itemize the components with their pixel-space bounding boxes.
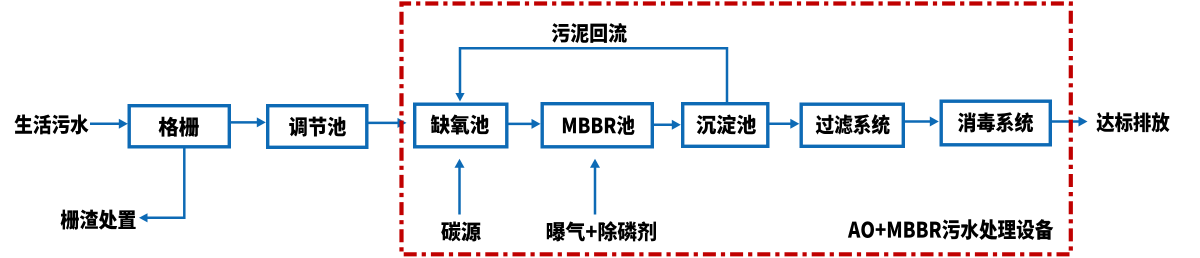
- label 缺氧池: [431, 115, 489, 135]
- label 曝气+除磷剂 (aeration + phosphorus remover): [547, 221, 656, 241]
- label 栅渣处置 (screenings disposal): [61, 210, 136, 230]
- screenings disposal branch line from 格栅 down-left to 栅渣处置: [139, 149, 184, 223]
- process box 消毒系统 (disinfection system): [941, 101, 1050, 145]
- arrow 缺氧池 to MBBR池: [509, 119, 541, 129]
- label 过滤系统: [816, 114, 890, 134]
- process box 格栅 (bar screen): [129, 106, 229, 147]
- red dash-dot boundary of AO+MBBR equipment package: [402, 4, 1071, 255]
- label 生活污水 (influent domestic sewage): [14, 114, 88, 134]
- process box 沉淀池 (sedimentation tank): [683, 104, 768, 147]
- carbon source dosing arrow into 缺氧池: [455, 159, 465, 215]
- arrow 生活污水 to 格栅: [90, 119, 128, 129]
- sludge return line (污泥回流) from 沉淀池 top to 缺氧池 top: [455, 48, 727, 102]
- arrow 沉淀池 to 过滤系统: [770, 119, 800, 129]
- process box 调节池 (equalization tank): [268, 106, 367, 148]
- label 达标排放 (discharge meeting standards): [1096, 112, 1169, 132]
- arrow 消毒系统 to 达标排放: [1052, 117, 1088, 127]
- arrow 调节池 to 缺氧池: [369, 118, 407, 128]
- process box 过滤系统 (filtration system): [801, 104, 903, 146]
- process box MBBR池 (MBBR tank): [542, 104, 652, 147]
- arrow MBBR池 to 沉淀池: [654, 120, 681, 130]
- label 污泥回流 (sludge return): [552, 23, 627, 43]
- label 消毒系统: [958, 112, 1033, 132]
- label MBBR池: [563, 115, 635, 134]
- label 调节池: [289, 117, 346, 137]
- label 碳源 (carbon source): [441, 222, 481, 242]
- arrow 格栅 to 调节池: [231, 117, 266, 127]
- label 格栅: [159, 117, 199, 137]
- arrow 过滤系统 to 消毒系统: [905, 117, 939, 127]
- aeration + phosphorus removal dosing arrow into MBBR池: [590, 159, 600, 215]
- process box 缺氧池 (anoxic tank): [415, 104, 507, 147]
- label 沉淀池: [696, 114, 756, 134]
- label AO+MBBR污水处理设备 (equipment name): [848, 219, 1053, 240]
